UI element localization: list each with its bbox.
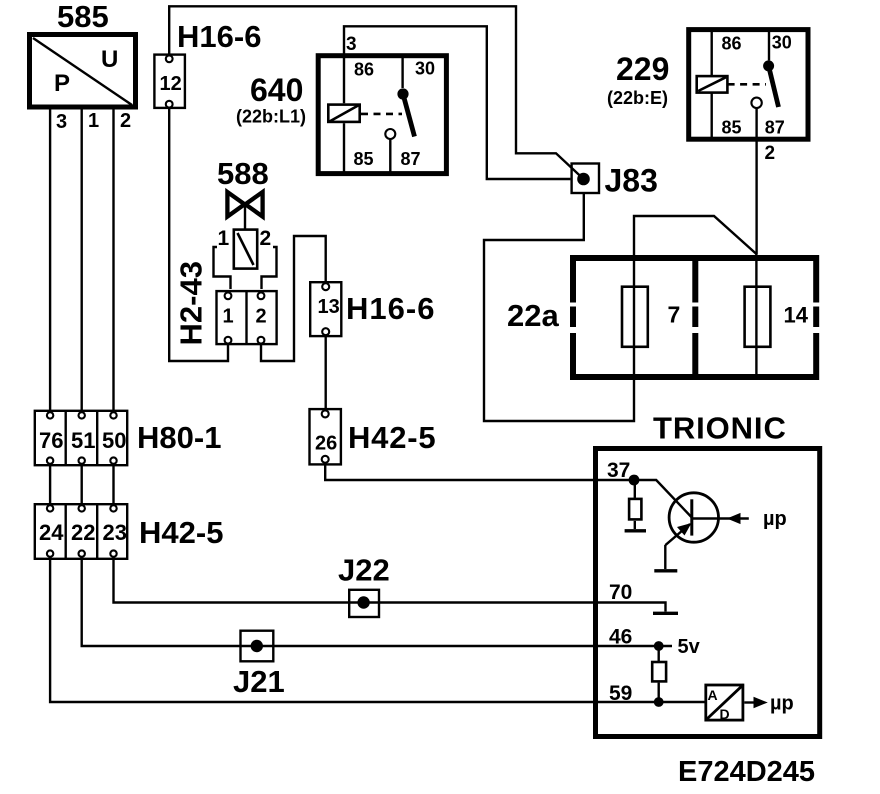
valve 588 coil body [218,227,272,269]
wire box12 top to J83 [169,6,583,179]
svg-text:640: 640 [250,72,303,108]
connector H80-1 label [137,420,221,455]
trionic pin 37 [607,459,639,485]
sensor 585 body [30,35,136,108]
connector H2-43 body [217,291,277,344]
drawing number [678,756,815,788]
svg-text:1: 1 [223,306,234,328]
svg-text:2: 2 [256,306,267,328]
svg-text:P: P [54,70,70,97]
svg-text:37: 37 [607,459,630,482]
relay 229 body [689,30,808,140]
relay 229 switch [751,30,778,108]
svg-text:µp: µp [770,693,794,715]
wire 585 pin1 to H80-1 pin51 [80,109,82,412]
A/D converter U2 [706,685,744,722]
fusebox 22a label [507,298,559,333]
svg-text:13: 13 [318,296,340,318]
wire 585 pin3 to H80-1 pin76 [49,109,51,412]
svg-text:1: 1 [88,110,99,132]
trionic pin 46 label [609,626,632,649]
svg-text:85: 85 [722,118,742,138]
relay 640 label [236,72,306,127]
ground emitter [654,545,677,571]
svg-text:J83: J83 [605,163,658,199]
svg-text:J22: J22 [338,553,390,588]
wire box26 to trionic pin37 [325,463,634,480]
connector box 13 [310,282,341,336]
svg-text:H42-5: H42-5 [348,420,436,455]
transistor Q1 [634,480,749,545]
svg-text:585: 585 [57,0,109,34]
trionic label [653,411,787,446]
svg-text:85: 85 [354,149,374,169]
valve housing bracket right [262,247,277,289]
relay 640 switch [385,56,414,173]
svg-text:µp: µp [763,508,787,530]
relay 229 dashed link [728,83,766,86]
trionic box [596,449,820,737]
svg-text:E724D245: E724D245 [678,756,815,788]
svg-text:229: 229 [616,51,669,87]
svg-text:H42-5: H42-5 [139,515,223,550]
trionic pin 59 label [609,682,632,705]
svg-text:1: 1 [218,227,230,250]
connector box 26 [310,409,341,464]
relay 229 coil [697,30,728,139]
wire box13 to box26 [325,335,327,410]
node 5v [654,636,701,658]
contact bar pin70 [653,612,678,615]
connector H2-43 label [174,261,209,345]
wire 585 pin2 to H80-1 pin50 [112,109,114,412]
svg-text:588: 588 [217,156,269,191]
junction J83 [572,163,658,199]
svg-text:30: 30 [772,33,792,53]
svg-text:86: 86 [722,34,742,54]
valve 588 label [217,156,269,191]
svg-text:7: 7 [668,302,681,328]
wire H42-5 pin24 to trionic pin59 [50,557,705,702]
sensor 585 label [57,0,109,34]
svg-text:TRIONIC: TRIONIC [653,411,787,446]
svg-text:76: 76 [39,428,63,453]
microprocessor label 2 [770,693,794,715]
svg-text:(22b:E): (22b:E) [607,88,668,108]
wire H42-5 pin22 to trionic pin46 via J21 [82,557,672,646]
svg-text:50: 50 [102,428,126,453]
svg-text:2: 2 [260,227,272,250]
connector H42-5 body [35,503,127,559]
svg-text:30: 30 [415,59,435,79]
trionic pin 70 label [609,581,632,604]
svg-text:26: 26 [315,433,337,455]
fuse 14 [745,254,809,374]
wires H80-1 to H42-5 [50,464,113,505]
wire relay640 pin86 to J83 [344,26,570,179]
wire H42-5 pin23 to trionic pin70 via J22 [114,557,666,612]
svg-text:86: 86 [354,60,374,80]
svg-text:H16-6: H16-6 [346,291,435,326]
svg-text:H80-1: H80-1 [137,420,221,455]
connector H16-6 label top [177,19,261,54]
svg-text:5v: 5v [678,636,701,658]
svg-text:A: A [708,687,718,703]
svg-text:H2-43: H2-43 [174,261,209,345]
svg-text:51: 51 [71,428,95,453]
fuse 7 [622,287,680,347]
svg-text:24: 24 [39,520,64,545]
wire box12 bottom to H2-43 pin1 [169,108,228,361]
resistor R1 [629,480,641,529]
fusebox 22a body [570,255,819,380]
ground R1 [625,529,646,532]
wire H2-43 pin2 to box13 [261,236,326,361]
valve housing bracket left [214,247,231,289]
wire relay229 pin87 to fuse14 [757,108,775,254]
svg-text:87: 87 [401,149,421,169]
connector box 12 [154,55,185,108]
A/D output arrow [744,697,768,708]
relay 640 body [318,56,446,174]
connector H80-1 body [35,410,127,466]
resistor R2 [652,646,666,702]
svg-text:J21: J21 [233,664,285,699]
svg-text:2: 2 [765,143,776,164]
svg-text:23: 23 [103,520,127,545]
svg-text:D: D [720,706,730,722]
svg-text:3: 3 [56,111,67,133]
junction J22 [338,553,390,618]
svg-text:22a: 22a [507,298,559,333]
svg-text:2: 2 [120,110,131,132]
svg-text:H16-6: H16-6 [177,19,261,54]
connector H16-6 label mid [346,291,435,326]
connector H42-5 label left [139,515,223,550]
microprocessor label 1 [763,508,787,530]
relay 640 coil [328,105,359,173]
svg-text:22: 22 [71,520,95,545]
junction J21 [233,631,285,699]
wire 3 label [346,34,357,55]
wire J83 to fuse7 and fuse14 [484,194,756,421]
valve 588 symbol [227,192,262,230]
svg-text:(22b:L1): (22b:L1) [236,107,306,127]
svg-text:3: 3 [346,34,357,55]
connector H42-5 label mid [348,420,436,455]
node 59 junction [654,697,664,707]
sensor 585 pin labels [56,110,131,133]
svg-text:U: U [101,46,118,73]
svg-text:87: 87 [765,118,785,138]
relay 229 label [607,51,669,108]
relay 640 dashed link [361,113,402,116]
svg-text:70: 70 [609,581,632,604]
svg-text:12: 12 [160,73,182,95]
svg-text:14: 14 [784,303,809,328]
